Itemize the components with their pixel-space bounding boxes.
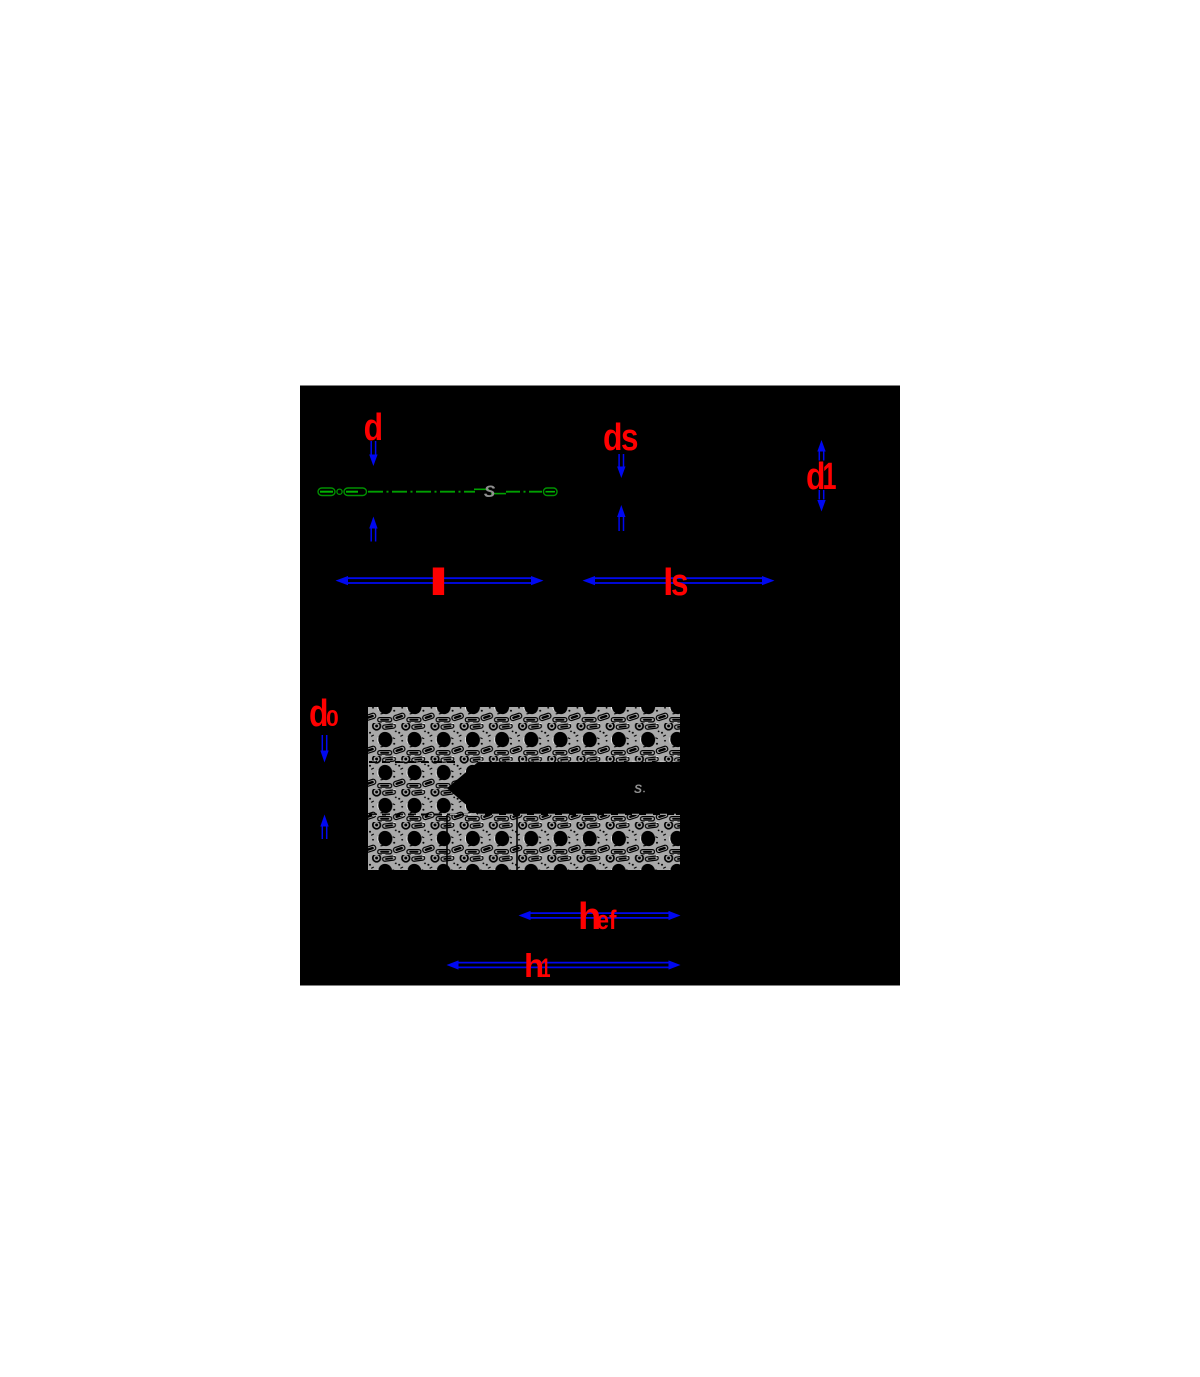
svg-text:d: d [364,407,384,449]
svg-text:s: s [671,562,689,604]
svg-text:S: S [484,482,496,501]
svg-text:S: S [634,782,642,796]
svg-text:s: s [621,417,639,459]
svg-text:d: d [603,417,623,459]
svg-text:0: 0 [326,705,339,731]
svg-text:ef: ef [597,905,618,935]
svg-text:l: l [427,562,450,604]
svg-text:1: 1 [823,456,837,498]
svg-text:1: 1 [541,953,551,983]
